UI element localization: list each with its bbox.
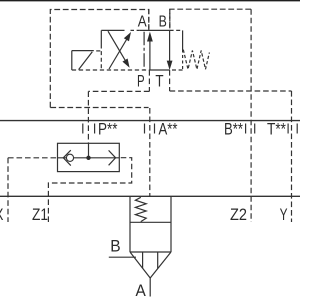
port B** notch marks	[245, 124, 247, 134]
wire Z1 pilot line (dashed)	[48, 158, 131, 222]
wire cartridge port B	[109, 256, 136, 258]
cartridge valve V3 spring	[135, 197, 146, 221]
valve V1 right square dashed right portion	[170, 29, 183, 31]
svg-text:B: B	[159, 13, 167, 30]
wire T drain horizontal / box U2 bottom (dashed)	[170, 90, 292, 92]
wire P pilot feed horizontal to P** (dashed)	[88, 90, 149, 92]
cartridge valve V3 body	[129, 196, 131, 252]
arrowhead of crossed arrow a	[124, 32, 131, 41]
solenoid S1 (left actuator)	[71, 51, 73, 70]
wire A** pilot line down to cartridge (dashed)	[149, 108, 151, 196]
wire X feed horizontal to shuttle valve (dashed)	[8, 157, 58, 159]
svg-text:P**: P**	[98, 120, 118, 139]
svg-text:X: X	[0, 205, 3, 224]
cartridge valve V3 poppet cone	[130, 252, 150, 278]
valve V1 return spring (dashed zigzag, right side)	[183, 50, 209, 70]
port A** notch marks	[144, 124, 146, 134]
svg-text:A**: A**	[159, 120, 178, 139]
cartridge valve V3 poppet stem lines	[142, 252, 144, 268]
svg-text:A: A	[138, 13, 147, 30]
svg-text:T: T	[155, 72, 163, 90]
shuttle valve V2 right seat	[109, 150, 116, 165]
valve V1 crossed arrow b (down-right)	[108, 31, 127, 63]
shuttle valve V2 body	[58, 143, 120, 171]
svg-text:B: B	[110, 238, 120, 256]
svg-text:B**: B**	[224, 120, 243, 139]
arrowhead of crossed arrow b	[122, 59, 129, 68]
wire T**/Y drain vertical (dashed)	[291, 91, 293, 222]
valve V1 right square top edge	[140, 29, 170, 31]
port P** notch marks	[82, 124, 84, 134]
valve V1 squares separator (dash-dot)	[143, 32, 145, 70]
shuttle valve V2 output junction dot	[86, 156, 90, 160]
wire T drain stub below valve (dashed)	[169, 70, 171, 91]
valve V1 bottom edge solid segment P-T	[149, 69, 169, 71]
svg-text:Y: Y	[280, 205, 288, 224]
page rule at top edge	[0, 0, 300, 2]
shuttle valve V2 internal line	[58, 157, 120, 159]
wire B-port stub above valve (dashed)	[169, 9, 171, 30]
shuttle valve V2 ball	[66, 154, 73, 161]
wire P pilot stub below valve (dashed)	[148, 70, 150, 91]
valve V1 crossed arrow a (up-right)	[109, 38, 128, 69]
shuttle valve V2 left seat	[63, 150, 71, 165]
valve V1 bottom edge (dashed run from solenoid to P port)	[72, 69, 150, 71]
dashed enclosure box U1 (pilot valve assembly, top-left)	[50, 10, 149, 108]
svg-text:Z2: Z2	[230, 205, 247, 224]
arrowhead of B-to-T arrow	[167, 61, 173, 70]
shuttle valve V2 output riser	[88, 143, 90, 158]
wire solenoid-to-square connector (dash)	[96, 50, 100, 52]
wire cartridge port A	[149, 278, 151, 297]
wire Z2/B** pilot vertical / box U2 right edge (dashed)	[250, 9, 252, 222]
valve V1 B-to-T arrow (down)	[169, 30, 171, 63]
svg-text:A: A	[136, 282, 146, 300]
dashed enclosure box U2 (cover plate assembly, top-right)	[170, 9, 251, 30]
wire P** riser (dashed, down to shuttle valve)	[87, 91, 89, 143]
svg-text:T**: T**	[267, 120, 286, 139]
valve V1 left square (crossover position) outline	[101, 29, 124, 31]
manifold bottom surface line	[0, 195, 300, 197]
svg-text:P: P	[137, 72, 145, 90]
svg-text:Z1: Z1	[32, 205, 48, 224]
port T** notch marks	[287, 124, 289, 134]
wire A-port stub above valve (dashed)	[148, 10, 150, 31]
wire X pilot line (dashed)	[7, 158, 9, 222]
arrowhead of P-to-A arrow	[147, 32, 153, 42]
valve V1 P-to-A arrow (up)	[149, 36, 151, 70]
manifold top surface line	[0, 120, 300, 122]
